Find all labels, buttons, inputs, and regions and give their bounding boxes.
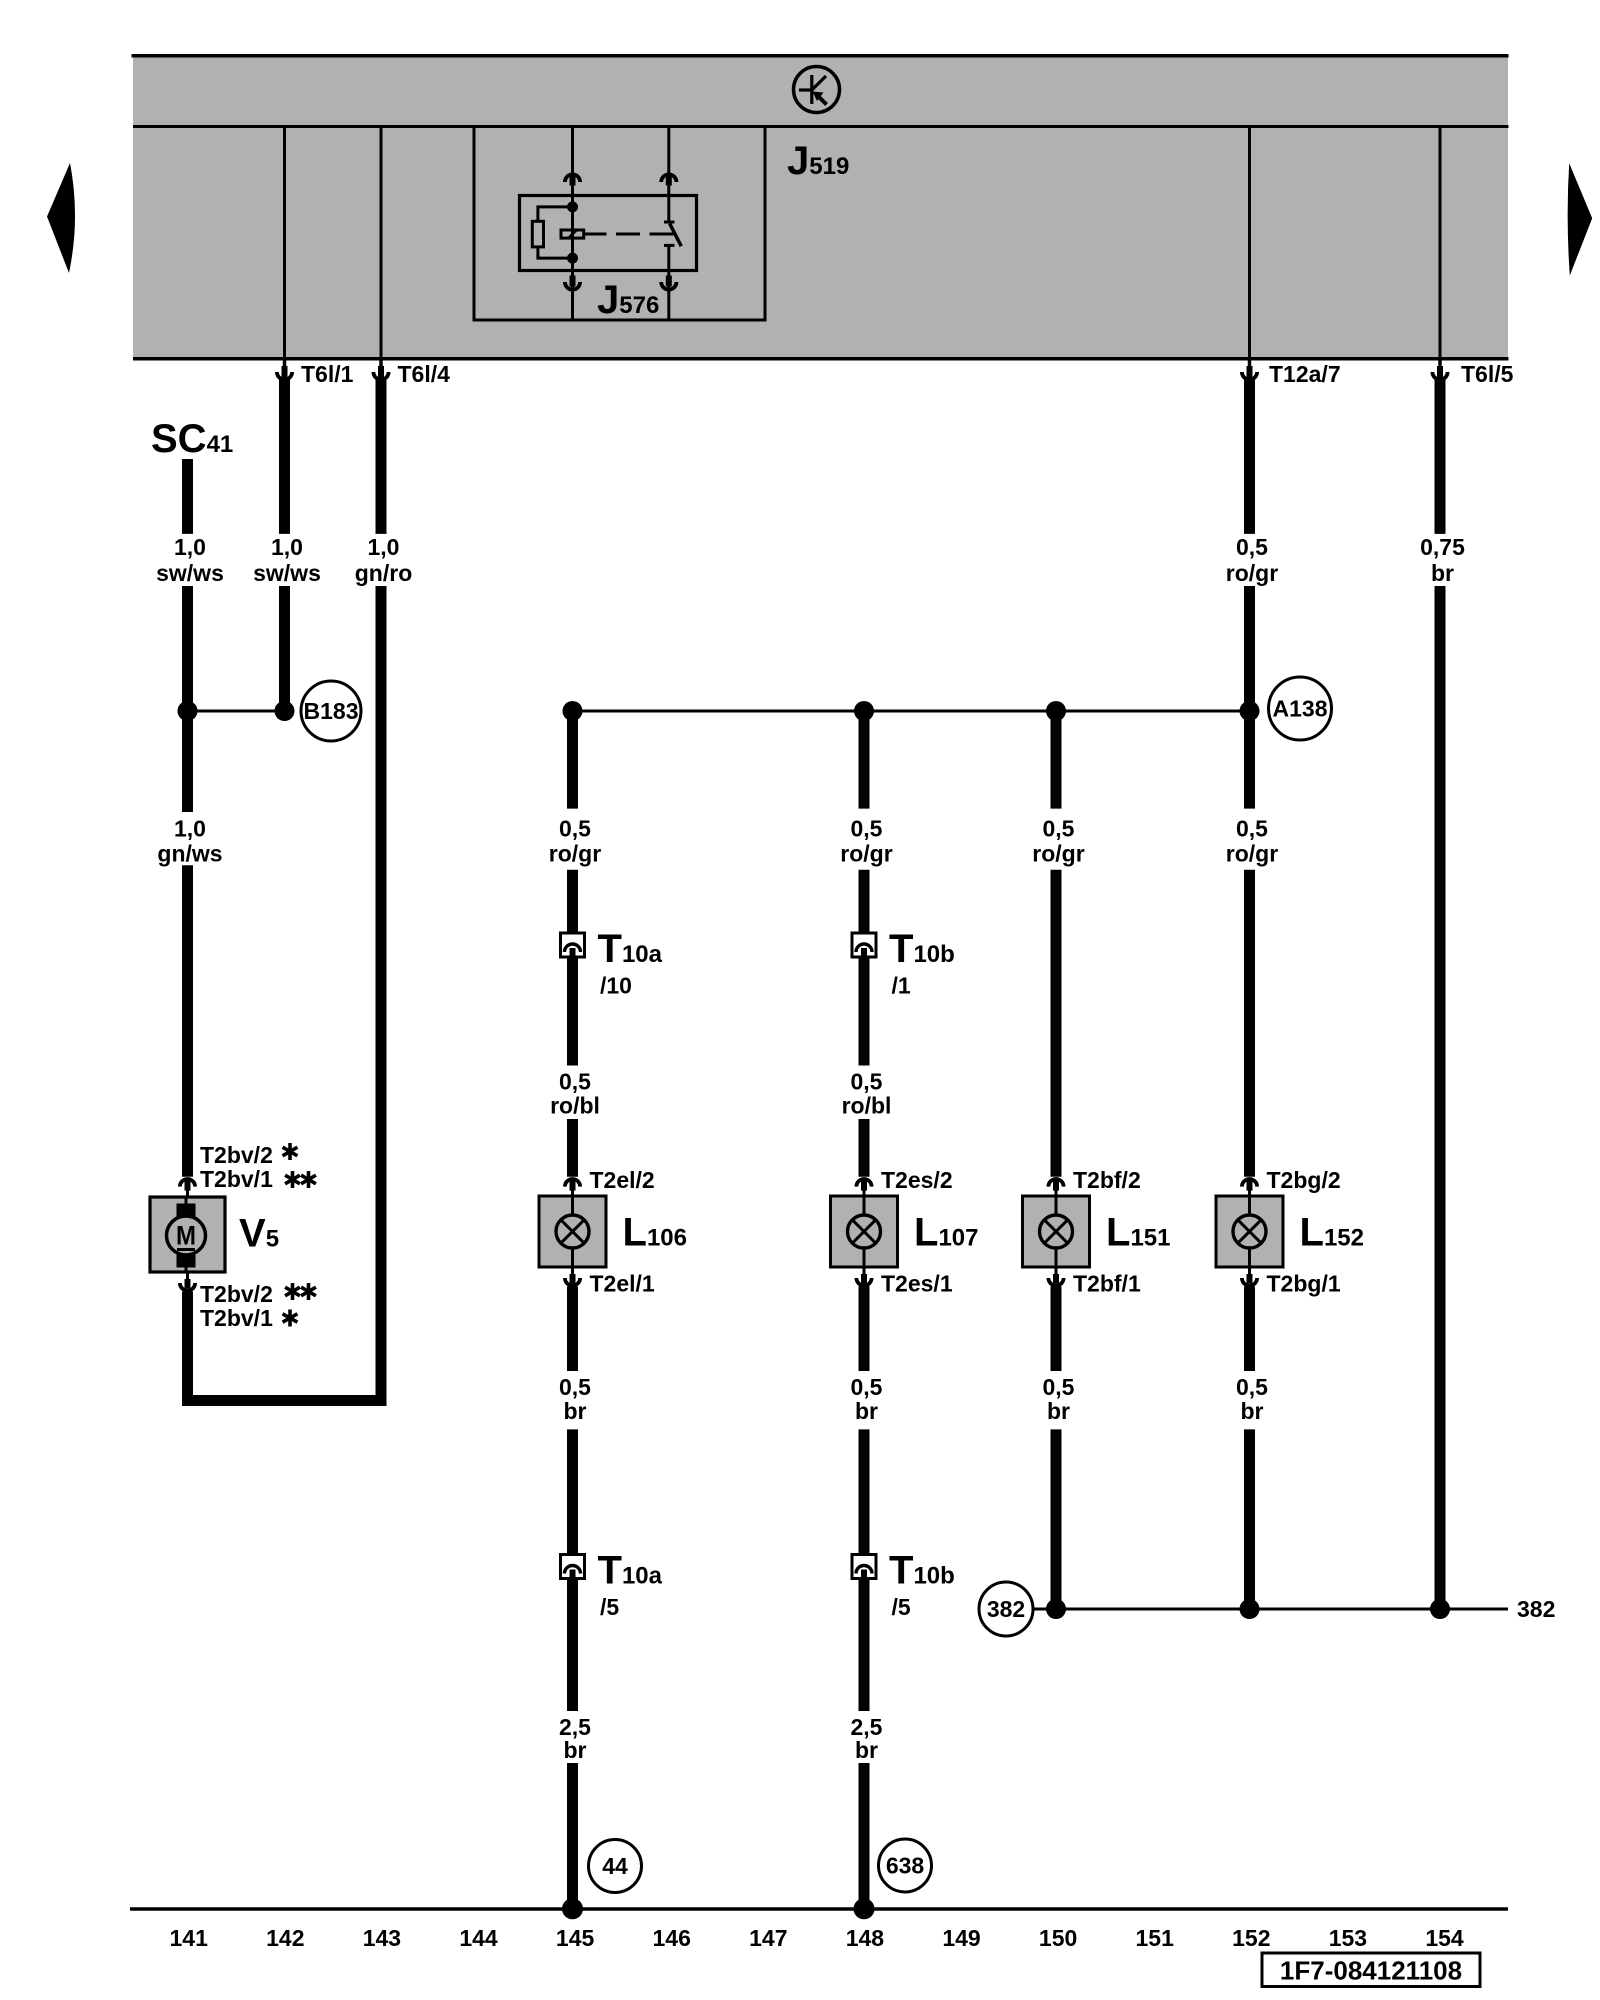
- wire L152 to node 382, 0.5 br: [1244, 1287, 1255, 1610]
- connector T10b/1: [852, 927, 955, 999]
- relay J576 pin 2 bottom lead with terminal: [661, 271, 676, 321]
- svg-text:144: 144: [459, 1925, 498, 1951]
- svg-text:382: 382: [987, 1596, 1025, 1622]
- svg-text:br: br: [1047, 1398, 1070, 1424]
- svg-text:0,5: 0,5: [1043, 1374, 1075, 1400]
- relay mechanical dash link: [584, 233, 674, 236]
- relay J576 pin 2 top lead with terminal: [661, 128, 676, 196]
- terminal labels T2bv/2* T2bv/1** (top of V5): [200, 1142, 316, 1192]
- wire label 0,5 ro/bl (col 148): [842, 1069, 892, 1119]
- terminal T2bg/1: [1242, 1267, 1341, 1297]
- svg-text:gn/ws: gn/ws: [157, 841, 222, 867]
- wire label 0,5 ro/gr (col 150): [1032, 816, 1084, 867]
- svg-text:br: br: [855, 1398, 878, 1424]
- wire bus to L152, 0.5 ro/gr: [1244, 711, 1255, 1177]
- svg-text:1,0: 1,0: [271, 534, 303, 560]
- svg-text:149: 149: [942, 1925, 980, 1951]
- label J519: [787, 139, 849, 183]
- terminal T2es/1: [856, 1267, 952, 1297]
- wire inside band to T6l/4: [380, 128, 383, 358]
- svg-text:148: 148: [846, 1925, 885, 1951]
- svg-text:T6l/1: T6l/1: [301, 361, 354, 387]
- wire label 0,5 br (col 148): [851, 1374, 883, 1424]
- svg-text:T2es/2: T2es/2: [881, 1167, 953, 1193]
- wire B183 to V5, 1.0 gn/ws: [182, 711, 193, 1177]
- relay J576 enclosure box: [474, 128, 765, 320]
- wire bus to T10b, 0.5 ro/gr: [859, 711, 870, 934]
- svg-text:1,0: 1,0: [174, 534, 206, 560]
- terminal T2bg/2: [1242, 1167, 1341, 1197]
- node 382 wire: [1033, 1596, 1555, 1622]
- fuse label SC41: [151, 417, 233, 461]
- svg-text:br: br: [1431, 560, 1454, 586]
- wire L151 to node 382, 0.5 br: [1051, 1287, 1062, 1610]
- svg-text:T2bg/2: T2bg/2: [1267, 1167, 1341, 1193]
- wire label 0,5 ro/bl (col 145): [550, 1069, 600, 1119]
- relay J576 pin 1 top lead with terminal: [565, 128, 580, 196]
- connector T10a/5: [561, 1549, 663, 1621]
- lamp L107: [831, 1196, 979, 1267]
- junction dot bus col152: [1240, 701, 1260, 721]
- svg-text:382: 382: [1517, 1596, 1555, 1622]
- svg-text:T2el/2: T2el/2: [590, 1167, 655, 1193]
- terminal T2bf/1: [1048, 1267, 1141, 1297]
- ground point 44: [589, 1840, 642, 1893]
- wire label 2,5 br (col 145): [559, 1714, 591, 1763]
- svg-text:145: 145: [556, 1925, 595, 1951]
- svg-text:T2bf/2: T2bf/2: [1073, 1167, 1141, 1193]
- relay J576 body box: [520, 196, 697, 271]
- node A138 bus wire: [573, 710, 1250, 713]
- relay J576 pin 1 bottom lead with terminal: [565, 271, 580, 321]
- symbol K (direction indicator) in circle: [794, 67, 840, 113]
- svg-text:151: 151: [1136, 1925, 1175, 1951]
- junction dot at col141/B183: [178, 701, 198, 721]
- wire label 2,5 br (col 148): [851, 1714, 883, 1763]
- svg-text:T2el/1: T2el/1: [590, 1271, 655, 1297]
- terminal arc top of V5: [180, 1179, 195, 1197]
- relay armature box: [561, 230, 584, 238]
- svg-text:sw/ws: sw/ws: [253, 560, 321, 586]
- svg-text:ro/gr: ro/gr: [1226, 560, 1278, 586]
- wire label 0,5 ro/gr (col 145): [549, 816, 601, 867]
- junction dot bus col150: [1046, 701, 1066, 721]
- svg-text:br: br: [1241, 1398, 1264, 1424]
- lamp L106: [539, 1196, 687, 1267]
- relay pin1 internal line: [571, 196, 574, 271]
- wire SC41 down, 1.0 sw/ws: [182, 459, 193, 711]
- svg-text:/10: /10: [600, 973, 632, 999]
- junction dot 382 col154: [1430, 1599, 1450, 1619]
- relay switch contact: [664, 196, 681, 271]
- svg-text:br: br: [564, 1737, 587, 1763]
- connector T10a/10: [561, 927, 663, 999]
- wire L106 down, 0.5 br: [567, 1287, 578, 1556]
- svg-text:152: 152: [1232, 1925, 1270, 1951]
- svg-text:0,5: 0,5: [851, 1374, 883, 1400]
- wire T10b to L107, 0.5 ro/bl: [859, 957, 870, 1177]
- wire inside band to T6l/5: [1439, 128, 1442, 358]
- connector T10b/5: [852, 1549, 955, 1621]
- svg-text:1,0: 1,0: [368, 534, 400, 560]
- svg-text:150: 150: [1039, 1925, 1077, 1951]
- svg-text:T6l/4: T6l/4: [398, 361, 451, 387]
- terminal T6l/1: [277, 358, 354, 387]
- wire bus to L151, 0.5 ro/gr: [1051, 711, 1062, 1177]
- svg-text:/1: /1: [892, 973, 911, 999]
- svg-text:0,5: 0,5: [851, 816, 883, 842]
- svg-text:T2bv/1: T2bv/1: [200, 1166, 273, 1192]
- terminal arc bottom of V5: [180, 1272, 195, 1291]
- wire T10a to L106, 0.5 ro/bl: [567, 957, 578, 1177]
- control unit J519 gray band: [132, 54, 1509, 360]
- svg-text:T2bg/1: T2bg/1: [1267, 1271, 1341, 1297]
- wire bus to T10a, 0.5 ro/gr: [567, 711, 578, 934]
- wire label 1,0 gn/ws: [157, 816, 222, 867]
- svg-text:M: M: [176, 1221, 196, 1251]
- junction dot 382 col150: [1046, 1599, 1066, 1619]
- lamp L152: [1216, 1196, 1364, 1267]
- svg-text:0,75: 0,75: [1420, 534, 1465, 560]
- wire label 0,5 ro/gr (col 152 top): [1226, 534, 1278, 586]
- wire label 0,75 br (col 154): [1420, 534, 1465, 586]
- svg-text:T2bv/2: T2bv/2: [200, 1281, 273, 1307]
- svg-text:T12a/7: T12a/7: [1269, 361, 1341, 387]
- motor V5: [150, 1197, 225, 1272]
- wire T6l/5 to node 382, 0.75 br: [1435, 378, 1446, 1609]
- svg-text:0,5: 0,5: [559, 1374, 591, 1400]
- svg-text:0,5: 0,5: [851, 1069, 883, 1095]
- svg-text:ro/bl: ro/bl: [550, 1093, 600, 1119]
- wire inside band to T12a/7: [1248, 128, 1251, 358]
- label J576: [597, 278, 659, 322]
- wire label 1,0 gn/ro: [355, 534, 413, 586]
- junction dot coil top: [567, 201, 578, 212]
- wire label 0,5 br (col 145): [559, 1374, 591, 1424]
- terminal T6l/5: [1432, 358, 1513, 387]
- wire T6l/1 to B183, 1.0 sw/ws: [279, 378, 290, 711]
- svg-text:0,5: 0,5: [559, 1069, 591, 1095]
- svg-text:ro/gr: ro/gr: [840, 841, 892, 867]
- svg-text:147: 147: [749, 1925, 787, 1951]
- svg-text:146: 146: [653, 1925, 691, 1951]
- svg-text:B183: B183: [304, 698, 359, 724]
- junction dot 382 col152: [1240, 1599, 1260, 1619]
- svg-text:gn/ro: gn/ro: [355, 560, 413, 586]
- svg-text:ro/gr: ro/gr: [549, 841, 601, 867]
- junction dot bus col145: [563, 701, 583, 721]
- junction dot ground 44: [562, 1898, 583, 1919]
- svg-text:0,5: 0,5: [559, 816, 591, 842]
- wire label 0,5 br (col 152): [1236, 1374, 1268, 1424]
- svg-text:T2bv/2: T2bv/2: [200, 1142, 273, 1168]
- svg-text:T2bf/1: T2bf/1: [1073, 1271, 1141, 1297]
- diagram id box 1F7-084121108: [1262, 1953, 1480, 1987]
- wire inside band to T6l/1: [283, 128, 286, 358]
- wire T6l/4 down to V5 return, 1.0 gn/ro: [188, 378, 382, 1401]
- svg-text:0,5: 0,5: [1043, 816, 1075, 842]
- svg-text:T2es/1: T2es/1: [881, 1271, 953, 1297]
- svg-text:638: 638: [886, 1853, 925, 1879]
- terminal T2es/2: [856, 1167, 952, 1197]
- wire label 0,5 ro/gr (col 152): [1226, 816, 1278, 867]
- wire T10a to ground 44, 2.5 br: [567, 1579, 578, 1910]
- wire L107 down, 0.5 br: [859, 1287, 870, 1556]
- svg-text:T6l/5: T6l/5: [1461, 361, 1514, 387]
- svg-text:0,5: 0,5: [1236, 816, 1268, 842]
- node B183 junction wire: [188, 710, 285, 713]
- junction dot at col142/B183: [275, 701, 295, 721]
- wire T10b to ground 638, 2.5 br: [859, 1579, 870, 1910]
- svg-text:44: 44: [602, 1853, 628, 1879]
- lamp L151: [1023, 1196, 1171, 1267]
- svg-text:A138: A138: [1273, 696, 1328, 722]
- left page arrow: [47, 163, 75, 273]
- wire label 1,0 sw/ws (col 141): [156, 534, 224, 586]
- terminal T2el/1: [565, 1267, 655, 1297]
- node label A138: [1269, 677, 1332, 740]
- bottom current track rail: [130, 1907, 1508, 1911]
- svg-text:T2bv/1: T2bv/1: [200, 1305, 273, 1331]
- terminal T2bf/2: [1048, 1167, 1140, 1197]
- junction dot bus col148: [854, 701, 874, 721]
- svg-text:br: br: [564, 1398, 587, 1424]
- terminal T2el/2: [565, 1167, 655, 1197]
- svg-text:ro/gr: ro/gr: [1226, 841, 1278, 867]
- svg-text:0,5: 0,5: [1236, 1374, 1268, 1400]
- svg-text:/5: /5: [600, 1594, 619, 1620]
- wire T12a/7 to bus, 0.5 ro/gr: [1244, 378, 1255, 711]
- junction dot coil bottom: [567, 253, 578, 264]
- svg-text:0,5: 0,5: [1236, 534, 1268, 560]
- wire label 1,0 sw/ws (col 142): [253, 534, 321, 586]
- terminal T12a/7: [1242, 358, 1341, 387]
- svg-text:/5: /5: [892, 1594, 911, 1620]
- svg-text:141: 141: [170, 1925, 209, 1951]
- wire label 0,5 br (col 150): [1043, 1374, 1075, 1424]
- svg-text:ro/bl: ro/bl: [842, 1093, 892, 1119]
- svg-text:143: 143: [363, 1925, 401, 1951]
- wire label 0,5 ro/gr (col 148): [840, 816, 892, 867]
- right page arrow: [1568, 163, 1593, 275]
- junction dot ground 638: [854, 1898, 875, 1919]
- relay coil (resistor): [532, 207, 570, 258]
- current track numbers: [170, 1925, 1464, 1951]
- svg-text:ro/gr: ro/gr: [1032, 841, 1084, 867]
- terminal labels T2bv/2** T2bv/1* (bottom of V5): [200, 1281, 316, 1331]
- svg-text:1,0: 1,0: [174, 816, 206, 842]
- svg-text:154: 154: [1425, 1925, 1464, 1951]
- svg-text:sw/ws: sw/ws: [156, 560, 224, 586]
- node label 382 circle: [979, 1582, 1033, 1636]
- svg-text:1F7-084121108: 1F7-084121108: [1280, 1956, 1462, 1986]
- terminal T6l/4: [373, 358, 450, 387]
- svg-text:142: 142: [266, 1925, 304, 1951]
- ground point 638: [879, 1839, 932, 1892]
- svg-text:153: 153: [1329, 1925, 1367, 1951]
- node label B183: [301, 681, 361, 741]
- label V5: [239, 1212, 279, 1256]
- svg-text:br: br: [855, 1737, 878, 1763]
